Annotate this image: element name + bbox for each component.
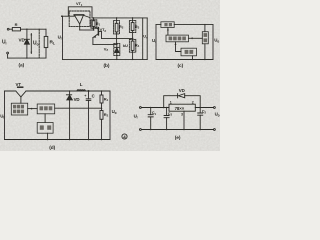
- wire pin3 ground stem: [183, 111, 185, 129]
- svg-text:C3: C3: [168, 112, 173, 117]
- wire a bottom: [8, 57, 46, 59]
- zener VZ dashed box: [114, 44, 120, 56]
- svg-text:VD: VD: [19, 38, 26, 43]
- terminal a-bottom-left: [7, 52, 9, 54]
- transistor VT2: [93, 26, 99, 44]
- svg-text:(c): (c): [178, 63, 184, 69]
- wire b inner output line: [142, 18, 144, 60]
- wire a top: [9, 28, 46, 30]
- transistor VT: [16, 87, 26, 103]
- svg-text:VT2: VT2: [100, 27, 107, 33]
- wire e main right: [195, 107, 213, 109]
- wire d left edge: [4, 91, 6, 140]
- resistor R3: [131, 18, 134, 39]
- wire d top: [5, 90, 111, 92]
- block 比较放大 (compare-amplify): [166, 35, 189, 42]
- wire b input top: [62, 15, 74, 17]
- capacitor C1: [148, 108, 153, 130]
- zener diode VD: [24, 29, 29, 59]
- capacitor C3: [164, 108, 169, 130]
- svg-text:(d): (d): [49, 145, 55, 151]
- svg-text:3: 3: [181, 112, 183, 116]
- wire b output edge: [146, 18, 148, 60]
- node dots d: [47, 90, 102, 140]
- wire 取样 taps: [204, 25, 206, 60]
- svg-text:R3: R3: [135, 24, 140, 30]
- block 基准: [37, 123, 53, 134]
- wire 基准 to 放大器: [44, 114, 46, 123]
- svg-text:R1: R1: [104, 96, 109, 102]
- transistor VT1: [74, 15, 90, 30]
- svg-text:C1: C1: [152, 111, 157, 116]
- wire c right edge: [212, 25, 214, 60]
- svg-text:(b): (b): [104, 63, 110, 69]
- terminal e-in-bottom: [140, 129, 142, 131]
- capacitor C2: [198, 108, 203, 130]
- node Uo measure arrow: [30, 34, 32, 54]
- wire b input rail: [62, 16, 64, 59]
- svg-text:L: L: [80, 82, 83, 87]
- resistor R4 dashed box: [129, 39, 135, 52]
- capacitor C: [86, 91, 91, 140]
- svg-text:C2: C2: [202, 110, 207, 115]
- wire d right edge: [109, 91, 111, 140]
- terminal e-in-top: [140, 107, 142, 109]
- wire VT2 base to tap: [98, 31, 101, 38]
- wire c top: [156, 24, 213, 26]
- svg-text:2: 2: [192, 101, 194, 105]
- resistor R: [12, 28, 20, 31]
- resistor R1 dashed box: [91, 20, 97, 29]
- resistor R1: [100, 91, 103, 108]
- IC 78xx box: [169, 104, 195, 111]
- block 放大器: [37, 104, 55, 114]
- wire 放大器 to 矩形波发生器 arrow: [28, 108, 38, 110]
- svg-text:1: 1: [170, 101, 172, 105]
- terminal e-out-bottom: [214, 129, 216, 131]
- resistor R4: [131, 38, 134, 59]
- block 调整 (adjust): [161, 22, 174, 28]
- svg-text:R: R: [15, 22, 18, 27]
- block 矩形波发生器: [11, 103, 27, 115]
- svg-text:VT: VT: [16, 82, 22, 87]
- wire feedback tap line: [55, 107, 102, 109]
- svg-text:R1: R1: [96, 21, 101, 27]
- wire c bottom: [156, 59, 213, 61]
- resistor R1: [92, 18, 95, 30]
- svg-text:VT1: VT1: [76, 1, 83, 7]
- svg-text:R2: R2: [104, 112, 109, 118]
- svg-text:R4: R4: [135, 42, 140, 48]
- wire tap line: [102, 37, 133, 39]
- wire 调整 to 比较放大: [167, 28, 169, 36]
- wire 基准 to bottom rail: [192, 56, 194, 60]
- svg-text:VZ: VZ: [104, 47, 109, 53]
- svg-text:kU: kU: [123, 43, 128, 48]
- resistor RL: [44, 29, 48, 58]
- wire b output rail: [92, 17, 147, 19]
- terminal e-out-top: [214, 107, 216, 109]
- svg-text:R2: R2: [119, 24, 124, 30]
- wire c left edge: [155, 25, 157, 60]
- svg-text:C: C: [92, 93, 95, 98]
- resistor R2: [115, 18, 118, 45]
- wire 基准 to ground: [47, 133, 49, 139]
- inductor L: [77, 90, 85, 91]
- wire b ground rail: [63, 58, 148, 60]
- resistor R2 dashed box: [114, 21, 120, 34]
- wire d bottom: [5, 139, 111, 141]
- transistor VT1 dashed box: [69, 11, 90, 27]
- svg-text:78××: 78××: [175, 106, 185, 111]
- wire dashed separator: [38, 29, 40, 58]
- diode VD freewheel: [66, 91, 72, 140]
- zener diode VZ: [115, 44, 119, 59]
- node dots e: [150, 107, 201, 131]
- wire VT2 emitter line: [93, 43, 117, 45]
- wire e main left: [141, 107, 169, 109]
- resistor R3 dashed box: [129, 21, 135, 33]
- block 基准 (reference): [181, 48, 197, 56]
- svg-text:(a): (a): [19, 63, 25, 69]
- resistor R2: [100, 108, 103, 139]
- circled figure number 4: [122, 134, 127, 140]
- node dots b: [61, 15, 133, 60]
- diode VD protection: [164, 94, 201, 108]
- wire VT1 base to R1 node: [80, 29, 94, 31]
- wire over-top collector feed: [68, 7, 92, 18]
- wire 取样 to 比较放大: [189, 37, 203, 39]
- wire e ground: [141, 129, 213, 131]
- svg-text:VD: VD: [74, 97, 80, 102]
- wire a bottom-left stub: [7, 54, 9, 58]
- block 取样 (sampling): [202, 32, 208, 44]
- svg-text:VD: VD: [179, 88, 185, 93]
- terminal a-top-left: [7, 28, 9, 30]
- svg-text:(e): (e): [175, 135, 181, 141]
- wire 基准 to 比较放大: [176, 42, 182, 52]
